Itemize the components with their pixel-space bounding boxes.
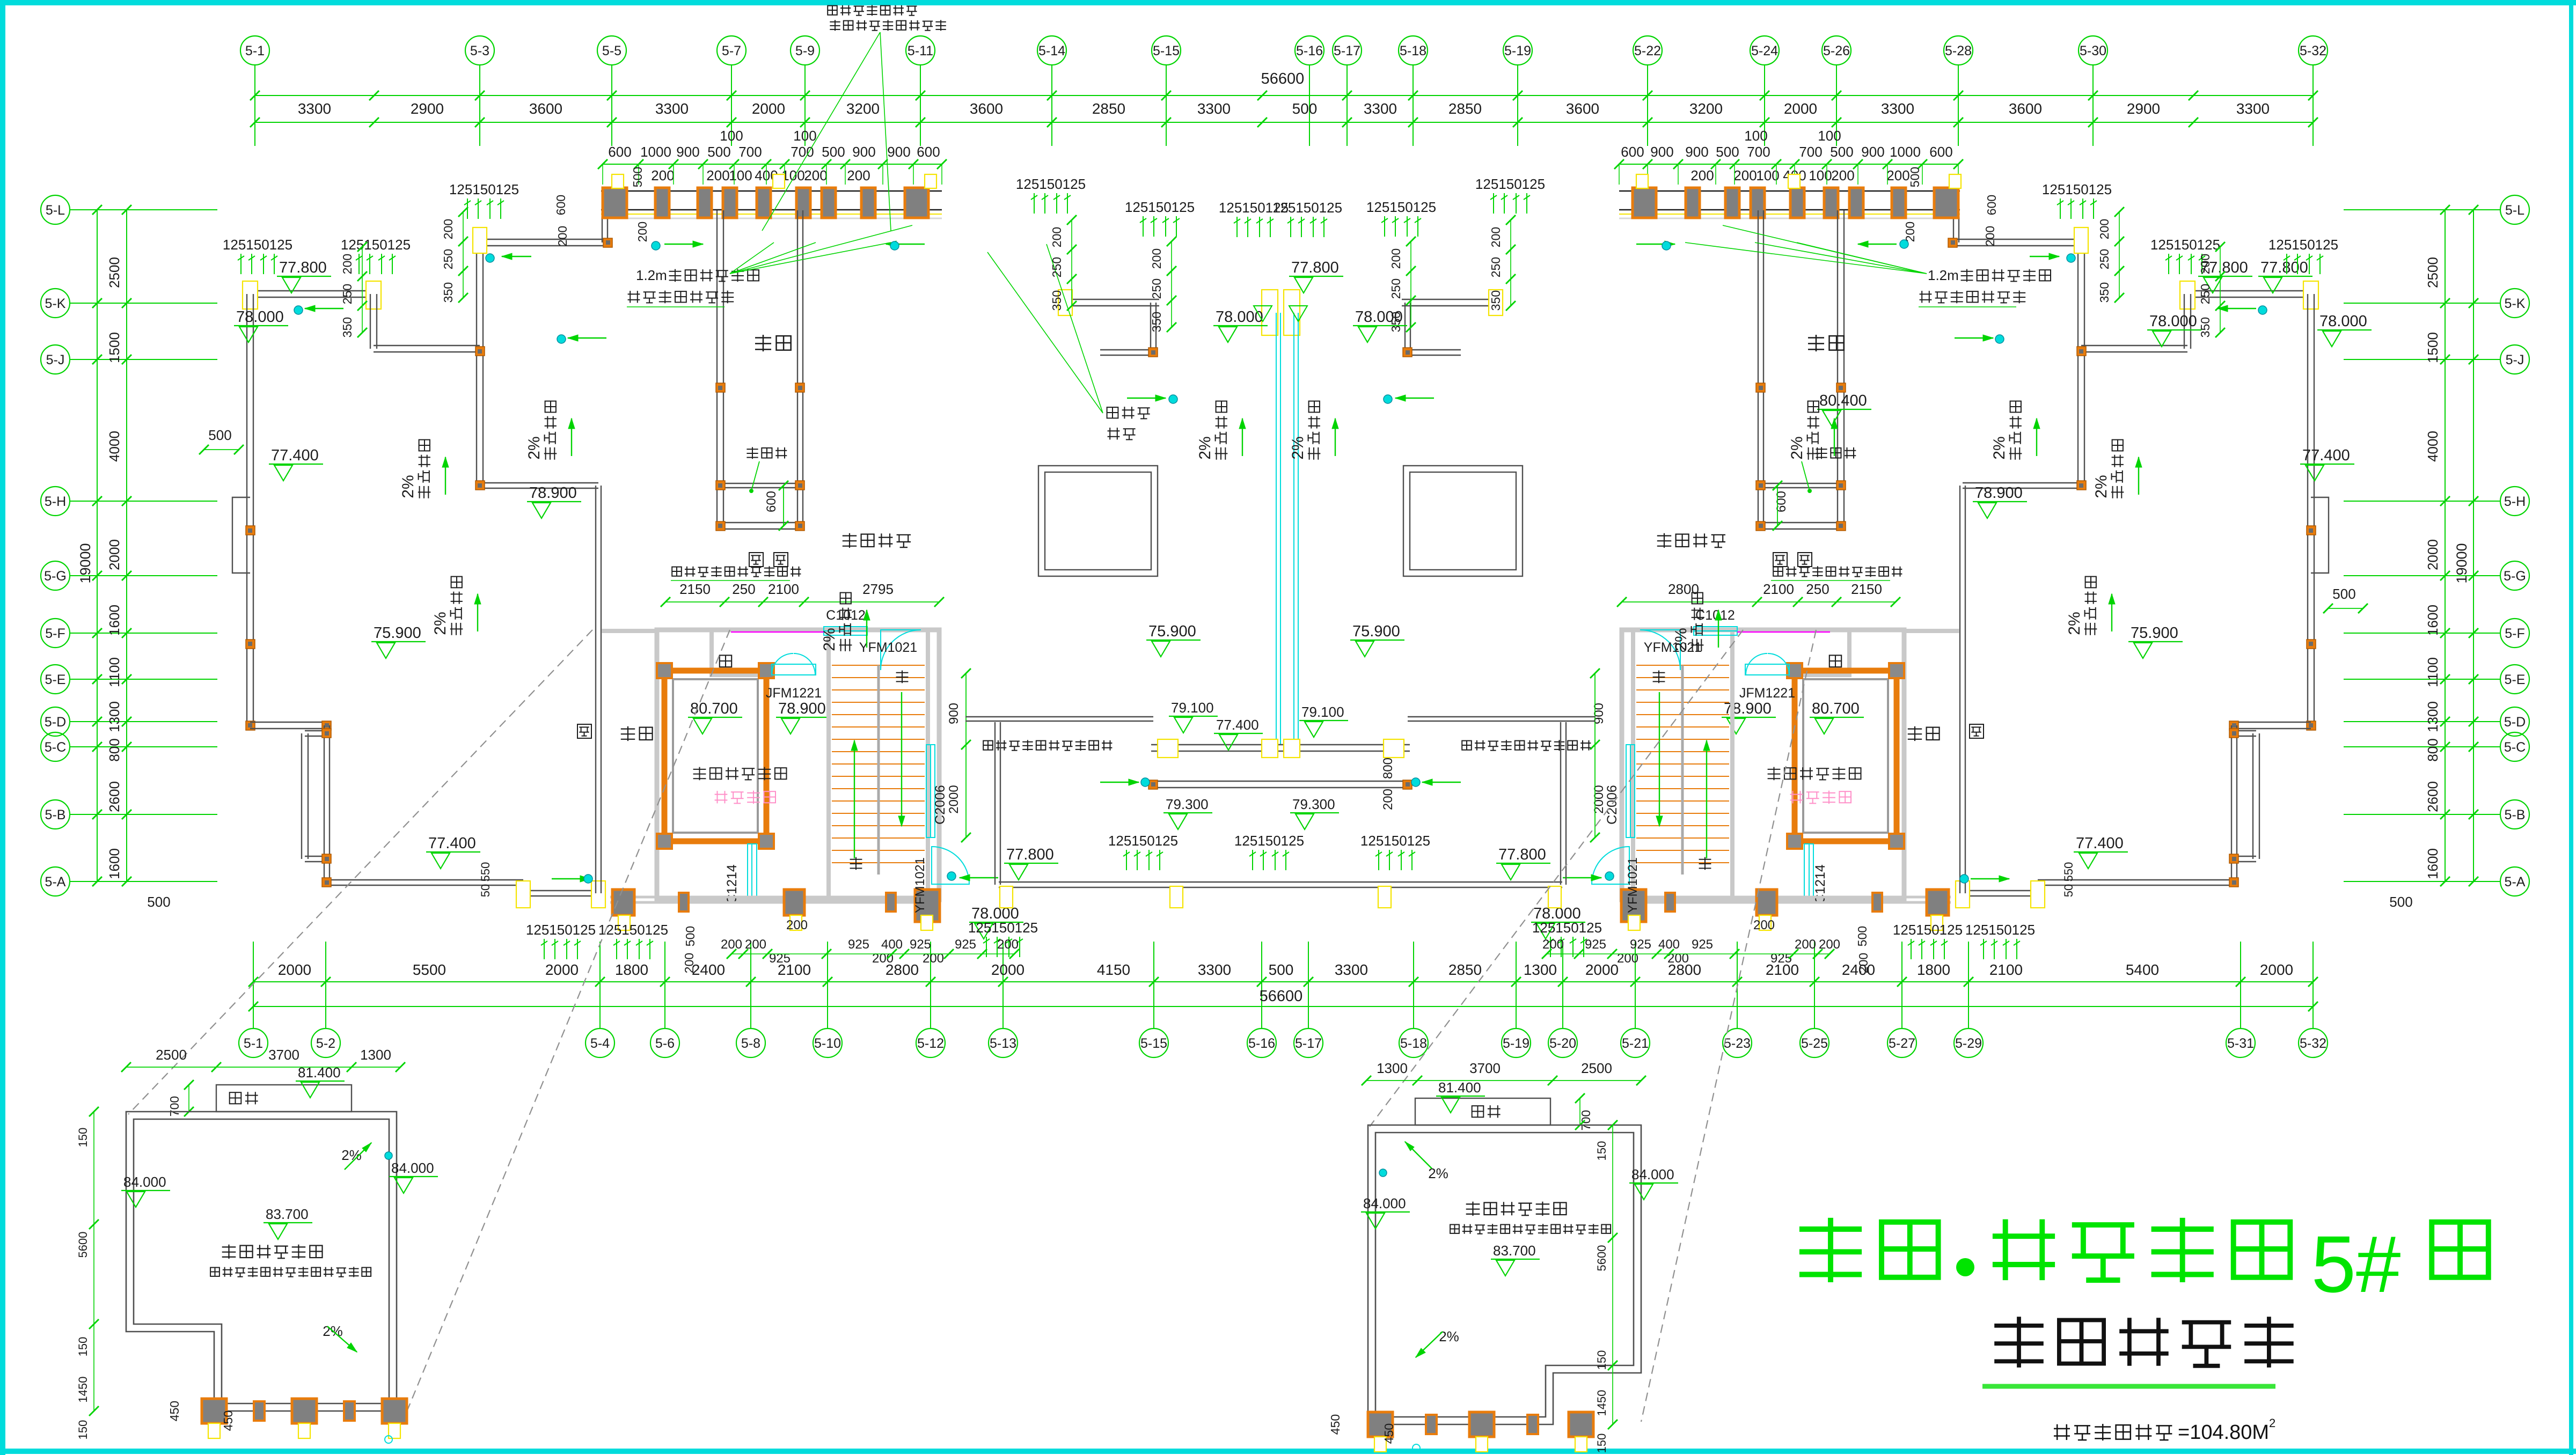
axis bubble 5-K [41,289,70,318]
arrow [571,418,572,456]
svg-text:2%: 2% [821,628,838,651]
svg-text:250: 250 [1050,257,1064,277]
svg-text:5500: 5500 [413,961,446,978]
svg-text:200: 200 [1542,937,1564,952]
bottom columns [1927,890,1949,915]
wall corner marker [795,521,804,531]
C2006 window [926,745,935,837]
svg-text:450: 450 [167,1401,181,1421]
column yellow outline [2180,281,2195,309]
svg-text:125150125: 125150125 [968,920,1038,936]
svg-text:80.400: 80.400 [1819,392,1867,409]
svg-text:200: 200 [1733,167,1757,183]
axis bubble 5-J [41,345,70,374]
column yellow outline [1931,915,1943,930]
svg-text:100: 100 [793,128,816,144]
column yellow outline [1788,174,1800,188]
svg-text:200: 200 [706,167,729,183]
wall corner marker [1836,383,1846,392]
svg-text:5-15: 5-15 [1140,1036,1167,1051]
wall corner marker [2229,878,2238,887]
svg-text:125150125: 125150125 [1366,199,1436,215]
svg-text:125150125: 125150125 [1234,833,1304,849]
column yellow outline [1170,886,1183,908]
arrow [960,877,998,878]
svg-text:5-27: 5-27 [1889,1036,1915,1051]
core bottom wall [1622,896,1951,899]
svg-text:1300: 1300 [1377,1060,1408,1076]
svg-text:500: 500 [147,894,170,910]
svg-text:125150125: 125150125 [1219,200,1289,216]
svg-text:2500: 2500 [1581,1060,1612,1076]
svg-text:125150125: 125150125 [526,922,596,938]
zhongkong label [755,335,791,351]
area note [2054,1424,2172,1441]
svg-text:5-H: 5-H [45,494,66,509]
svg-text:5-14: 5-14 [1038,43,1065,58]
svg-text:5-1: 5-1 [244,1036,263,1051]
axis bubble 5-E [41,665,70,694]
axis bubble 5-F [41,619,70,648]
svg-text:200: 200 [1690,167,1714,183]
svg-text:900: 900 [1685,144,1708,160]
arrow [1416,1332,1443,1357]
wall [1404,303,1406,352]
right total dimension line 19000 [2473,210,2474,881]
bottom columns [612,890,634,915]
svg-text:500: 500 [1830,144,1853,160]
axis bubble 5-B [2500,800,2529,829]
dashed detail reference line C [128,630,592,1114]
svg-text:5-9: 5-9 [795,43,815,58]
axis bubble 5-32 [2299,36,2328,65]
svg-text:YFM1021: YFM1021 [913,857,927,913]
svg-text:2%: 2% [1289,436,1307,459]
wall [476,349,477,486]
svg-text:5-10: 5-10 [814,1036,841,1051]
svg-text:2800: 2800 [1668,581,1699,597]
svg-text:78.900: 78.900 [778,700,826,717]
svg-text:2100: 2100 [1989,961,2023,978]
project title green [1799,1218,1938,1282]
svg-text:19000: 19000 [2454,543,2470,583]
left detail machine room outline [126,1112,397,1411]
svg-text:2000: 2000 [2425,539,2441,570]
svg-text:700: 700 [791,144,814,160]
axis bubble 5-G [41,561,70,590]
svg-text:925: 925 [848,937,869,952]
magenta sill line [731,631,824,633]
arrow [2030,256,2059,257]
svg-text:5-B: 5-B [45,807,66,822]
wall corner marker [322,729,331,738]
svg-text:5-8: 5-8 [741,1036,760,1051]
axis bubble 5-A [41,867,70,896]
arrow [1834,418,1835,456]
svg-text:2600: 2600 [2425,781,2441,812]
svg-text:19000: 19000 [77,543,93,583]
top sub dimensions [1619,164,1958,165]
middle detail machine room outline [1368,1125,1641,1424]
svg-text:5-28: 5-28 [1945,43,1972,58]
svg-text:200: 200 [441,219,455,239]
svg-text:2000: 2000 [545,961,579,978]
svg-text:3200: 3200 [1689,100,1723,117]
wall [301,733,302,859]
column yellow outline [516,881,530,908]
wall [720,483,800,484]
axis bubble 5-18 [1399,1028,1428,1057]
axis bubble 5-D [41,707,70,736]
wall [1151,744,1410,745]
svg-text:YFM1021: YFM1021 [1626,857,1640,913]
wall corner marker [2229,729,2238,738]
left total dimension line 19000 [97,210,98,881]
column yellow outline [2303,281,2318,309]
wall [2307,294,2308,725]
svg-text:JFM1221: JFM1221 [1739,686,1795,701]
svg-text:2850: 2850 [1448,961,1482,978]
axis bubble 5-13 [989,1028,1018,1057]
svg-text:JFM1221: JFM1221 [766,686,822,701]
wall corner marker [1148,348,1158,357]
svg-text:2000: 2000 [106,539,122,570]
arrow [1971,878,2009,879]
wall [1065,299,1159,300]
wall [602,215,603,242]
right dimension line [2445,210,2446,881]
axis bubble 5-15 [1152,36,1181,65]
wall [1151,781,1410,782]
svg-text:4000: 4000 [2425,431,2441,462]
svg-text:125150125: 125150125 [1360,833,1430,849]
axis bubble 5-17 [1294,1028,1323,1057]
accessible roof label right [1657,533,1725,548]
column yellow outline [1489,290,1503,315]
svg-text:1450: 1450 [76,1377,90,1403]
svg-text:5-13: 5-13 [990,1036,1016,1051]
sub dim extension lines [602,164,603,185]
svg-text:150: 150 [76,1420,90,1440]
wall [965,716,1153,717]
magenta sill line [1737,631,1830,633]
svg-text:600: 600 [554,195,568,215]
svg-text:5-A: 5-A [45,875,66,890]
wall [2077,349,2079,486]
svg-text:350: 350 [1389,312,1403,332]
left dimension line [126,210,127,881]
elevator room orange walls [664,671,766,841]
axis bubble 5-B [41,800,70,829]
axis bubble 5-11 [906,36,935,65]
concrete column [1824,188,1838,218]
arrow [568,337,606,339]
svg-text:84.000: 84.000 [391,1160,434,1176]
svg-text:=104.80M: =104.80M [2178,1421,2269,1444]
svg-text:700: 700 [738,144,762,160]
svg-text:200: 200 [2097,219,2111,239]
column yellow outline [618,915,630,930]
machine room note middle [1450,1224,1611,1234]
arrow [1422,782,1461,783]
svg-text:125150125: 125150125 [2268,237,2338,253]
svg-text:79.300: 79.300 [1166,796,1209,812]
svg-text:500: 500 [208,427,231,443]
svg-text:925: 925 [1692,937,1713,952]
openable window note lower [983,740,1112,751]
wall corner marker [1756,481,1765,490]
wall [520,883,521,893]
axis bubble 5-H [41,487,70,516]
svg-text:3600: 3600 [2009,100,2042,117]
svg-text:2000: 2000 [2260,961,2293,978]
axis bubble 5-24 [1750,36,1779,65]
svg-text:450: 450 [221,1410,235,1431]
svg-text:700: 700 [1799,144,1822,160]
svg-text:200: 200 [1050,227,1064,247]
svg-text:400: 400 [881,937,903,952]
wall corner marker [246,526,255,535]
axis bubble 5-32 [2299,1028,2328,1057]
svg-text:1600: 1600 [106,848,122,879]
core bottom wall [610,896,939,899]
svg-text:125150125: 125150125 [2150,237,2220,253]
axis bubble 5-28 [1944,36,1973,65]
svg-text:5-K: 5-K [2505,296,2526,311]
cyan dots left detail [385,1152,392,1159]
axis bubble 5-16 [1295,36,1324,65]
wall corner marker [1836,481,1846,490]
axis bubble 5-1 [240,36,269,65]
openable window note upper [1773,566,1902,577]
upper door YFM1021 [1640,630,1680,670]
svg-text:700: 700 [167,1096,181,1116]
C1214 window [748,844,757,898]
wall corner marker [1836,521,1846,531]
wall [480,482,598,483]
svg-text:77.800: 77.800 [1006,846,1054,863]
svg-text:79.100: 79.100 [1301,704,1344,720]
svg-text:1800: 1800 [1917,961,1950,978]
axis bubble 5-G [2500,561,2529,590]
svg-text:350: 350 [441,282,455,303]
svg-text:200: 200 [1381,789,1395,810]
svg-text:5-24: 5-24 [1751,43,1778,58]
svg-text:5600: 5600 [76,1232,90,1258]
sub dim extension lines [1958,164,1959,185]
wall corner marker [716,481,725,490]
svg-text:600: 600 [917,144,940,160]
axis bubble 5-19 [1502,1028,1531,1057]
svg-text:2%: 2% [1990,436,2008,459]
elevator room orange walls [1795,671,1897,841]
svg-text:925: 925 [1630,937,1651,952]
wall corner marker [1403,348,1412,357]
svg-text:5-G: 5-G [44,569,67,584]
arrow [854,740,855,858]
concrete column [861,188,875,218]
svg-text:77.800: 77.800 [279,259,327,276]
svg-text:450: 450 [1328,1414,1342,1435]
axis bubble 5-17 [1333,36,1362,65]
railing note right 2 [1920,291,2026,304]
arrow [1395,398,1434,399]
bottom dimension line [253,981,2313,982]
svg-text:77.400: 77.400 [1216,717,1259,733]
concrete column [1934,188,1958,218]
wall [2187,290,2311,291]
axis bubble 5-21 [1621,1028,1650,1057]
wall [994,722,996,885]
svg-text:5-2: 5-2 [316,1036,335,1051]
svg-text:3200: 3200 [846,100,880,117]
svg-text:1600: 1600 [106,605,122,636]
svg-text:3300: 3300 [655,100,689,117]
concrete column [723,188,737,218]
svg-text:250: 250 [441,249,455,269]
wall [476,242,477,349]
wall [2081,345,2187,346]
column yellow outline [389,1423,400,1438]
svg-text:250: 250 [340,284,354,304]
stair core outline light walls [1622,630,1904,900]
column yellow outline [1378,886,1391,908]
svg-text:2100: 2100 [1763,581,1794,597]
wall corner marker [322,721,331,730]
svg-text:2850: 2850 [1092,100,1125,117]
concrete column [1633,188,1656,218]
wall [1408,349,1461,350]
arrow [345,1143,371,1170]
wall [1150,303,1151,352]
svg-text:200: 200 [555,226,569,246]
column yellow outline [2031,881,2045,908]
svg-text:2000: 2000 [752,100,785,117]
center glass cyan lines [1276,313,1277,745]
column yellow outline [1759,915,1771,930]
svg-text:2900: 2900 [2127,100,2160,117]
wall [2077,242,2079,349]
arrow [1563,877,1601,878]
JFM1221 double door [772,664,816,675]
svg-text:75.900: 75.900 [374,624,421,642]
svg-text:200: 200 [1389,248,1403,269]
svg-text:600: 600 [1929,144,1952,160]
concrete column [603,188,627,218]
svg-text:200: 200 [1983,226,1997,246]
svg-text:77.400: 77.400 [2076,835,2124,852]
axis bubble 5-D [2500,707,2529,736]
kongtiaoban label [1816,447,1856,459]
svg-text:125150125: 125150125 [449,181,519,197]
svg-text:2500: 2500 [2425,257,2441,288]
axis bubble 5-F [2500,619,2529,648]
svg-text:2500: 2500 [156,1047,187,1063]
svg-text:56600: 56600 [1260,988,1303,1005]
svg-text:2%: 2% [1672,628,1690,651]
svg-text:125150125: 125150125 [1108,833,1178,849]
C1012 window [1694,627,1737,635]
zhongkong label [1808,335,1844,351]
bottom door YFM1021 [932,847,969,884]
roof top band [601,190,942,192]
concrete column [822,188,836,218]
wall [1758,210,1759,529]
arrow [901,692,902,826]
column yellow outline [921,915,933,930]
top total dimension line 56600 [255,95,2313,96]
center room box right [1403,466,1523,576]
svg-text:77.400: 77.400 [2302,447,2350,464]
svg-text:900: 900 [1650,144,1673,160]
wall [720,522,800,523]
wall [480,239,605,240]
svg-text:500: 500 [683,926,697,946]
svg-text:5-6: 5-6 [655,1036,675,1051]
svg-text:200: 200 [721,937,742,952]
wall [2234,730,2256,731]
column yellow outline [790,915,802,930]
svg-text:5-31: 5-31 [2227,1036,2254,1051]
axis bubble 5-H [2500,487,2529,516]
svg-text:5-19: 5-19 [1503,1036,1529,1051]
axis bubble 5-12 [916,1028,945,1057]
middle detail dim row [1366,1080,1641,1081]
arrow [305,308,343,309]
column yellow outline [1374,1437,1386,1452]
fan room wall [709,630,714,677]
concrete column [698,188,712,218]
wall corner marker [322,878,331,887]
cyan drain dots [294,306,303,314]
svg-text:3600: 3600 [529,100,562,117]
svg-text:2%: 2% [2092,475,2110,498]
svg-text:79.100: 79.100 [1171,700,1214,716]
svg-text:250: 250 [1489,257,1503,277]
svg-text:2000: 2000 [1592,785,1606,813]
stair divider [1681,665,1684,875]
svg-text:81.400: 81.400 [298,1064,341,1081]
openable window note lower [1462,740,1591,751]
svg-text:4000: 4000 [106,431,122,462]
concrete column [796,188,810,218]
svg-text:3300: 3300 [1198,961,1231,978]
center triangles [1254,306,1272,321]
svg-text:900: 900 [852,144,875,160]
top sub dimensions [603,164,942,165]
svg-text:75.900: 75.900 [2131,624,2178,642]
svg-text:77.400: 77.400 [428,835,476,852]
axis bubble 5-C [41,732,70,761]
svg-text:5-19: 5-19 [1504,43,1531,58]
svg-text:5-1: 5-1 [245,43,265,58]
concrete column [1892,188,1906,218]
left detail canopy [216,1085,352,1112]
svg-text:200: 200 [786,918,808,932]
svg-text:200: 200 [804,167,827,183]
svg-text:5-D: 5-D [2504,715,2526,730]
axis bubble 5-27 [1887,1028,1916,1057]
svg-text:56600: 56600 [1261,70,1305,87]
svg-text:800: 800 [1381,758,1395,779]
svg-text:75.900: 75.900 [1352,623,1400,640]
svg-text:350: 350 [1050,290,1064,311]
column yellow outline [1262,290,1278,335]
top note grid mesh [828,5,917,16]
svg-text:5-17: 5-17 [1295,1036,1322,1051]
concrete column [905,188,928,218]
svg-text:1600: 1600 [2425,605,2441,636]
